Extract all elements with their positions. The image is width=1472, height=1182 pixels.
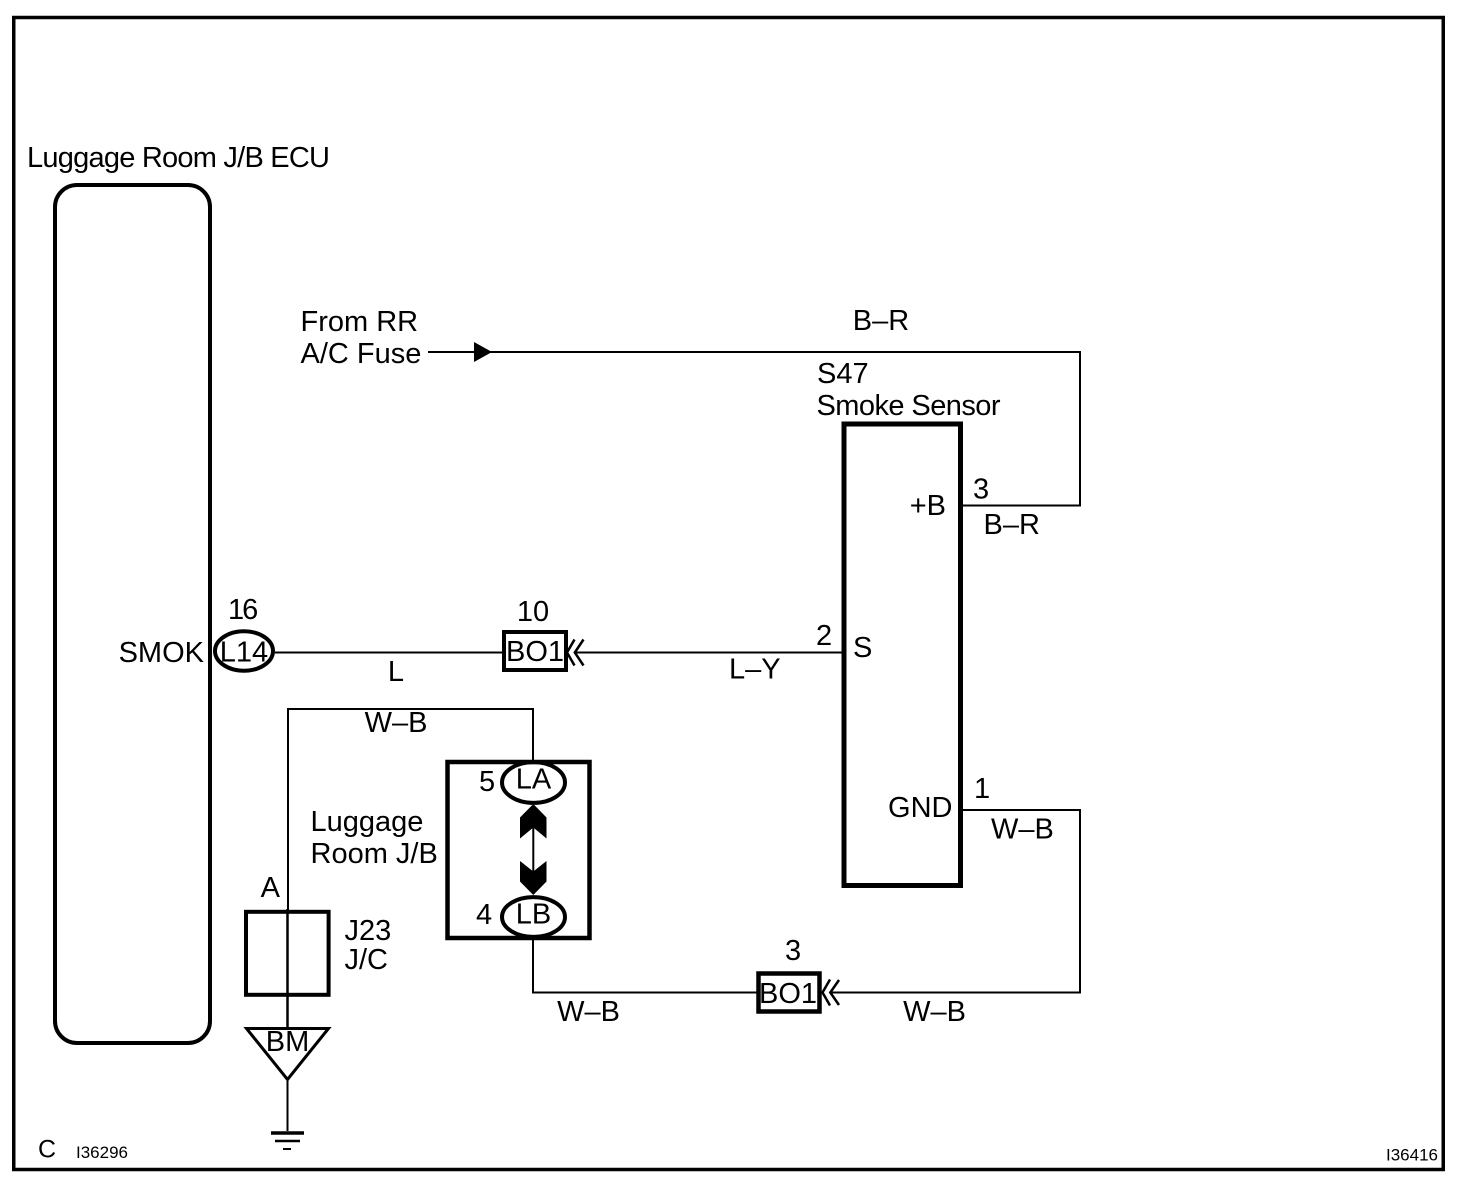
- svg-text:L–Y: L–Y: [729, 654, 781, 686]
- junction line between LA and LB: [532, 826, 534, 872]
- svg-text:W–B: W–B: [903, 996, 966, 1028]
- svg-text:J/C: J/C: [345, 944, 389, 976]
- ECU Luggage Room J/B ECU block: [55, 185, 210, 1043]
- wire L from L14 to BO1: [275, 652, 504, 654]
- svg-text:BM: BM: [266, 1026, 310, 1058]
- svg-text:S: S: [853, 632, 872, 664]
- svg-text:B–R: B–R: [984, 509, 1040, 541]
- junction connector J23 J/C box: [246, 912, 329, 995]
- svg-text:LA: LA: [516, 764, 552, 796]
- svg-text:Luggage: Luggage: [311, 806, 424, 838]
- down arrow: [520, 861, 547, 895]
- svg-text:Smoke Sensor: Smoke Sensor: [817, 390, 1001, 422]
- svg-text:A/C Fuse: A/C Fuse: [301, 338, 422, 370]
- svg-text:BO1: BO1: [759, 978, 817, 1010]
- connector LB oval: [502, 897, 565, 937]
- smoke sensor S47 block: [844, 424, 961, 886]
- svg-text:L: L: [388, 656, 404, 688]
- up arrow: [520, 804, 547, 839]
- connector BO1 lower box: [759, 974, 820, 1012]
- svg-text:3: 3: [785, 935, 801, 967]
- svg-text:BO1: BO1: [506, 636, 564, 668]
- svg-text:I36416: I36416: [1386, 1146, 1438, 1165]
- svg-text:Luggage Room J/B ECU: Luggage Room J/B ECU: [27, 142, 330, 174]
- svg-text:1: 1: [974, 773, 990, 805]
- connector BO1 upper box: [504, 632, 566, 670]
- ground symbol: [271, 1131, 304, 1135]
- svg-text:SMOK: SMOK: [119, 637, 205, 669]
- svg-text:S47: S47: [817, 358, 869, 390]
- wire BM to ground: [287, 1080, 289, 1132]
- svg-text:5: 5: [479, 766, 495, 798]
- svg-text:L14: L14: [220, 637, 268, 669]
- svg-text:From RR: From RR: [301, 306, 419, 338]
- wire from RR A/C fuse to +B pin (net B-R): [428, 352, 1080, 506]
- wire W-B from LB down to BO1 lower: [533, 937, 758, 993]
- wire L-Y from BO1 to S pin: [576, 652, 844, 654]
- connector L14 oval: [215, 631, 273, 671]
- svg-text:C: C: [38, 1136, 56, 1164]
- svg-text:B–R: B–R: [853, 305, 909, 337]
- svg-text:+B: +B: [910, 490, 946, 522]
- svg-text:GND: GND: [888, 792, 952, 824]
- chevron of BO1 lower: [823, 980, 831, 1006]
- svg-text:I36296: I36296: [76, 1143, 128, 1162]
- svg-text:W–B: W–B: [991, 814, 1054, 846]
- arrow on B-R feed wire: [474, 342, 492, 362]
- svg-text:16: 16: [228, 594, 257, 626]
- chevron of BO1 upper: [567, 640, 575, 666]
- svg-text:2: 2: [816, 620, 832, 652]
- svg-text:3: 3: [973, 474, 989, 506]
- connector LA oval: [502, 762, 565, 803]
- svg-text:4: 4: [476, 899, 492, 931]
- svg-text:A: A: [261, 872, 281, 904]
- svg-text:J23: J23: [345, 915, 392, 947]
- svg-text:10: 10: [517, 596, 549, 628]
- svg-text:W–B: W–B: [557, 996, 620, 1028]
- ground point BM triangle: [247, 1029, 329, 1080]
- Luggage Room J/B block: [448, 762, 590, 938]
- wire W-B from GND pin to BO1 lower: [832, 810, 1080, 993]
- svg-text:LB: LB: [516, 899, 551, 931]
- wire through J23: [286, 909, 289, 1027]
- svg-text:W–B: W–B: [365, 707, 428, 739]
- wire W-B from LA up and left down to J23: [288, 709, 533, 911]
- svg-text:Room J/B: Room J/B: [311, 838, 438, 870]
